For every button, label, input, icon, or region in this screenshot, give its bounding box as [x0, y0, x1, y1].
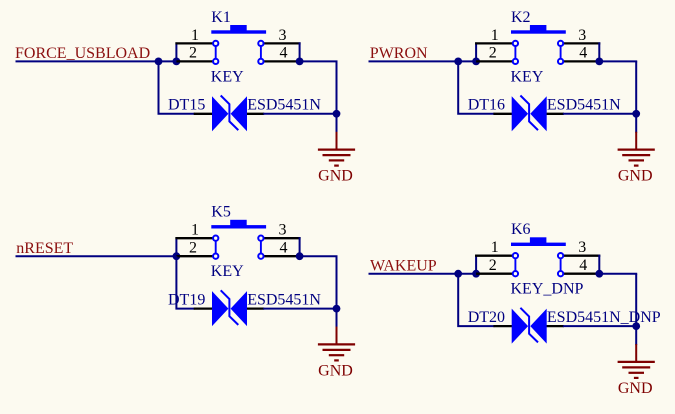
key K6 contact circle — [558, 271, 563, 276]
svg-text:4: 4 — [579, 257, 587, 274]
key K1 contact circle — [213, 59, 218, 64]
svg-text:DT19: DT19 — [168, 291, 205, 308]
key K5 pin 1 — [175, 237, 215, 239]
key K6 pin 2 — [476, 273, 515, 275]
wire pin1-to-pin2 vertical link — [475, 42, 477, 61]
wire net PWRON horizontal — [369, 60, 477, 62]
ground GND bar 2 — [622, 366, 650, 368]
junction node at pin 4 — [296, 58, 304, 66]
key K1 pin 2 — [176, 60, 215, 62]
wire pin1-to-pin2 vertical link — [175, 42, 177, 61]
wire pin1-to-pin2 vertical link — [175, 237, 177, 256]
svg-text:nRESET: nRESET — [16, 240, 73, 257]
ground GND bar 1 — [618, 361, 655, 363]
svg-text:1: 1 — [191, 222, 199, 239]
key K2 contact circle — [558, 59, 563, 64]
svg-text:KEY: KEY — [511, 68, 544, 85]
diode DT20 right triangle — [530, 309, 546, 344]
junction node nRESET at pin 2 — [173, 252, 181, 260]
junction node at pin 4 — [595, 270, 603, 278]
key K1 right contact link — [260, 43, 262, 61]
diode DT16 left triangle — [512, 96, 528, 131]
svg-text:KEY: KEY — [211, 263, 244, 280]
key K5 contact circle — [213, 254, 218, 259]
wire drop to diode DT15 — [159, 61, 195, 113]
key K2 actuator bar — [511, 30, 566, 33]
wire net FORCE_USBLOAD horizontal — [16, 60, 177, 62]
wire net WAKEUP horizontal — [369, 273, 477, 275]
svg-text:WAKEUP: WAKEUP — [370, 257, 437, 274]
key K2 contact circle — [513, 59, 518, 64]
svg-text:1: 1 — [491, 239, 499, 256]
svg-text:K1: K1 — [211, 9, 231, 26]
key K5 actuator plunger — [230, 220, 247, 226]
key K2 contact circle — [558, 41, 563, 46]
diode DT15 left triangle — [212, 96, 228, 131]
key K1 pin 4 — [261, 60, 300, 62]
diode DT20 left triangle — [512, 309, 528, 344]
svg-text:K6: K6 — [511, 221, 531, 238]
junction node at pin 4 — [595, 58, 603, 66]
wire pin3-to-pin4 vertical link — [598, 42, 600, 61]
wire pin1-to-pin2 vertical link — [475, 255, 477, 274]
key K1 contact circle — [213, 41, 218, 46]
wire diode cathode to rail — [563, 325, 636, 327]
key K5 contact circle — [258, 236, 263, 241]
junction node PWRON drop — [454, 58, 462, 66]
diode DT16 center electrode — [520, 96, 538, 131]
ground GND bar 2 — [323, 154, 351, 156]
key K1 left contact link — [215, 43, 217, 61]
ground GND bar 1 — [618, 149, 655, 151]
ground GND bar 4 — [334, 359, 339, 361]
diode DT16 right triangle — [530, 96, 546, 131]
diode DT20 cathode pin 2 — [546, 325, 564, 327]
wire rail vertical — [336, 61, 338, 132]
ground GND stem — [635, 132, 637, 150]
key K2 contact circle — [513, 41, 518, 46]
svg-text:FORCE_USBLOAD: FORCE_USBLOAD — [15, 45, 150, 62]
svg-text:ESD5451N: ESD5451N — [247, 291, 321, 308]
key K1 actuator plunger — [230, 25, 247, 31]
diode DT16 cathode pin 2 — [546, 113, 564, 115]
diode DT19 left triangle — [212, 291, 228, 326]
key K6 pin 1 — [475, 255, 515, 257]
junction node diode-rail — [333, 110, 341, 118]
svg-text:2: 2 — [489, 257, 497, 274]
key K6 actuator plunger — [530, 237, 547, 243]
wire rail vertical — [635, 274, 637, 345]
key K6 pin 4 — [561, 273, 600, 275]
key K1 pin 1 — [175, 42, 215, 44]
wire diode cathode to rail — [563, 113, 636, 115]
ground GND bar 1 — [318, 343, 355, 345]
wire rail vertical — [336, 256, 338, 327]
svg-text:ESD5451N_DNP: ESD5451N_DNP — [547, 309, 661, 326]
ground GND bar 1 — [318, 149, 355, 151]
svg-text:2: 2 — [489, 45, 497, 62]
diode DT15 right triangle — [231, 96, 247, 131]
key K6 right contact link — [560, 256, 562, 274]
svg-text:GND: GND — [618, 168, 653, 185]
key K1 contact circle — [258, 59, 263, 64]
svg-text:2: 2 — [189, 45, 197, 62]
svg-text:3: 3 — [279, 27, 287, 44]
diode DT19 cathode pin 2 — [246, 307, 264, 309]
svg-text:4: 4 — [280, 45, 288, 62]
wire pin3-to-pin4 vertical link — [598, 255, 600, 274]
svg-text:PWRON: PWRON — [370, 45, 428, 62]
key K1 actuator bar — [211, 30, 266, 33]
key K5 left contact link — [215, 238, 217, 256]
key K6 left contact link — [514, 256, 516, 274]
junction node diode-rail — [632, 322, 640, 330]
key K2 pin 3 — [561, 42, 601, 44]
ground GND bar 3 — [329, 159, 344, 161]
junction node diode-rail — [333, 305, 341, 313]
svg-text:3: 3 — [279, 222, 287, 239]
wire drop to diode DT19 — [176, 256, 194, 308]
key K5 actuator bar — [211, 225, 266, 228]
diode DT20 anode pin 1 — [493, 325, 512, 327]
ground GND bar 2 — [622, 154, 650, 156]
svg-text:GND: GND — [318, 168, 353, 185]
junction node at pin 4 — [296, 252, 304, 260]
key K5 right contact link — [260, 238, 262, 256]
key K6 actuator bar — [511, 243, 566, 246]
wire pin3-to-pin4 vertical link — [299, 42, 301, 61]
diode DT15 anode pin 1 — [194, 113, 213, 115]
svg-text:K5: K5 — [211, 204, 231, 221]
ground GND stem — [336, 132, 338, 150]
key K2 pin 4 — [561, 60, 600, 62]
key K2 left contact link — [514, 43, 516, 61]
key K2 pin 1 — [475, 42, 515, 44]
key K5 contact circle — [213, 236, 218, 241]
diode DT20 center electrode — [520, 308, 538, 343]
key K2 actuator plunger — [530, 25, 547, 31]
svg-text:3: 3 — [578, 27, 586, 44]
svg-text:3: 3 — [578, 239, 586, 256]
diode DT15 center electrode — [221, 96, 239, 131]
wire drop to diode DT20 — [458, 274, 494, 326]
ground GND bar 4 — [334, 165, 339, 167]
svg-text:DT20: DT20 — [468, 309, 505, 326]
ground GND bar 3 — [629, 159, 645, 161]
wire pin4 to rail — [599, 273, 637, 275]
svg-text:K2: K2 — [511, 9, 531, 26]
key K1 contact circle — [258, 41, 263, 46]
svg-text:DT16: DT16 — [468, 97, 505, 114]
junction node FORCE_USBLOAD at pin 2 — [173, 58, 181, 66]
key K6 pin 3 — [561, 255, 601, 257]
key K5 pin 3 — [261, 237, 301, 239]
wire pin4 to rail — [300, 60, 338, 62]
wire pin3-to-pin4 vertical link — [299, 237, 301, 256]
svg-text:4: 4 — [280, 239, 288, 256]
key K2 pin 2 — [476, 60, 515, 62]
ground GND bar 3 — [629, 372, 645, 374]
svg-text:2: 2 — [189, 239, 197, 256]
wire net nRESET horizontal — [16, 255, 177, 257]
ground GND stem — [635, 344, 637, 362]
svg-text:DT15: DT15 — [168, 97, 205, 114]
junction node FORCE_USBLOAD drop — [155, 58, 163, 66]
svg-text:4: 4 — [579, 45, 587, 62]
diode DT19 anode pin 1 — [194, 307, 213, 309]
key K2 right contact link — [560, 43, 562, 61]
junction node WAKEUP drop — [454, 270, 462, 278]
key K5 pin 2 — [176, 255, 215, 257]
key K6 contact circle — [513, 271, 518, 276]
wire pin4 to rail — [599, 60, 637, 62]
svg-text:KEY: KEY — [211, 68, 244, 85]
ground GND bar 3 — [329, 354, 344, 356]
diode DT15 cathode pin 2 — [246, 113, 264, 115]
svg-text:1: 1 — [491, 27, 499, 44]
wire diode cathode to rail — [263, 113, 336, 115]
key K6 contact circle — [558, 253, 563, 258]
wire pin4 to rail — [300, 255, 338, 257]
svg-text:ESD5451N: ESD5451N — [547, 97, 621, 114]
wire drop to diode DT16 — [458, 61, 494, 113]
junction node PWRON at pin 2 — [472, 58, 480, 66]
diode DT19 center electrode — [221, 290, 239, 325]
diode DT16 anode pin 1 — [493, 113, 512, 115]
ground GND bar 2 — [323, 349, 351, 351]
ground GND bar 4 — [634, 165, 639, 167]
key K1 pin 3 — [261, 42, 301, 44]
junction node diode-rail — [632, 110, 640, 118]
junction node WAKEUP at pin 2 — [472, 270, 480, 278]
ground GND bar 4 — [634, 377, 639, 379]
svg-text:GND: GND — [318, 362, 353, 379]
key K5 contact circle — [258, 254, 263, 259]
wire rail vertical — [635, 61, 637, 132]
wire diode cathode to rail — [263, 308, 336, 310]
ground GND stem — [336, 327, 338, 345]
svg-text:GND: GND — [618, 380, 653, 397]
diode DT19 right triangle — [231, 291, 247, 326]
key K6 contact circle — [513, 253, 518, 258]
svg-text:1: 1 — [191, 27, 199, 44]
svg-text:ESD5451N: ESD5451N — [247, 97, 321, 114]
svg-text:KEY_DNP: KEY_DNP — [511, 281, 584, 298]
key K5 pin 4 — [261, 255, 300, 257]
